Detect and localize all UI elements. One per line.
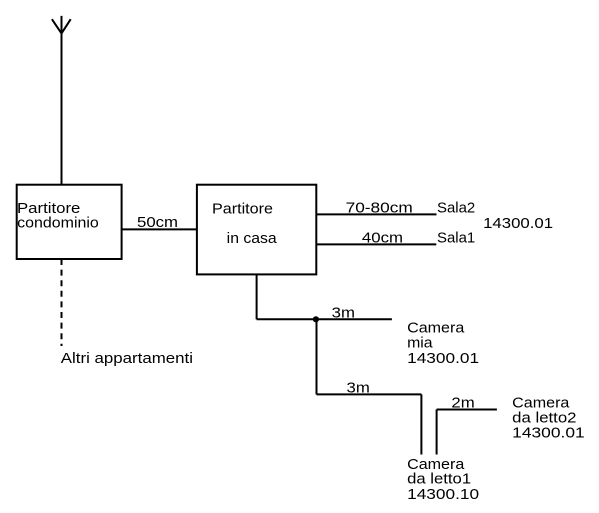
svg-text:2m: 2m	[451, 395, 474, 412]
wire: house splitter down	[256, 274, 258, 319]
svg-text:14300.01: 14300.01	[512, 424, 585, 441]
svg-text:Altri appartamenti: Altri appartamenti	[61, 350, 193, 367]
wire 3m to Camera da letto1	[317, 393, 422, 395]
svg-text:14300.10: 14300.10	[407, 486, 479, 503]
svg-text:3m: 3m	[332, 305, 355, 322]
wire 3m to Camera mia	[257, 318, 392, 320]
svg-text:50cm: 50cm	[137, 214, 178, 231]
box Partitore condominio	[17, 185, 122, 259]
label Partitore in casa	[212, 200, 277, 247]
svg-text:40cm: 40cm	[362, 229, 403, 246]
junction dot	[313, 316, 319, 322]
node Camera da letto1 14300.10	[407, 456, 479, 503]
svg-text:Partitore: Partitore	[212, 200, 273, 217]
box Partitore in casa	[197, 185, 316, 275]
node Camera da letto2 14300.01	[512, 395, 585, 442]
svg-text:14300.01: 14300.01	[407, 350, 479, 367]
svg-text:Sala2: Sala2	[437, 200, 475, 217]
svg-text:3m: 3m	[347, 380, 370, 397]
svg-text:14300.01: 14300.01	[483, 215, 553, 232]
wire: junction down	[316, 319, 318, 394]
node Camera mia 14300.01	[407, 320, 479, 367]
wire dashed: other apartments	[61, 259, 63, 346]
wire 2m to Camera da letto2	[437, 409, 497, 411]
svg-text:70-80cm: 70-80cm	[346, 199, 413, 216]
svg-text:Sala1: Sala1	[437, 229, 475, 246]
antenna AN1	[52, 16, 71, 185]
wire: down to Camera da letto1	[420, 394, 422, 454]
label Partitore condominio	[17, 200, 99, 231]
wire 70-80cm to Sala2	[316, 213, 436, 215]
wire 40cm to Sala1	[316, 243, 436, 245]
svg-text:condominio: condominio	[17, 214, 99, 231]
wire: Camera da letto1 up to 2m wire	[436, 410, 438, 455]
svg-text:in casa: in casa	[227, 230, 278, 247]
wire 50cm: condominio splitter to house splitter	[122, 228, 197, 230]
